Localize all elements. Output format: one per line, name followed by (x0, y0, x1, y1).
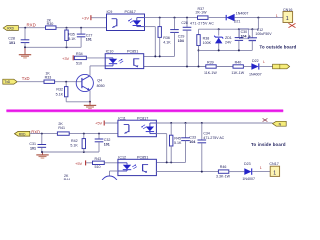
capacitor C27 (77, 28, 93, 48)
wire rail (IC10 emitter row) (144, 66, 206, 68)
power +5V (IC12) (75, 160, 93, 166)
ground (inside channel) (36, 151, 48, 158)
svg-text:104: 104 (189, 140, 195, 144)
svg-text:11K-1W: 11K-1W (231, 71, 244, 75)
svg-text:D21: D21 (234, 20, 241, 24)
wire ground rail (inside channel) (42, 151, 99, 153)
optocoupler IC11 (118, 117, 156, 137)
capacitor C28 X2 471/275VAC (181, 18, 214, 67)
resistor R39 (204, 61, 233, 75)
svg-text:5.1K: 5.1K (68, 37, 76, 41)
svg-text:8050: 8050 (97, 84, 105, 88)
separator line (board boundary) (6, 109, 283, 112)
svg-text:PC851: PC851 (127, 49, 138, 53)
wire IC11 cathode drop (156, 134, 166, 163)
svg-text:+5V: +5V (95, 120, 103, 125)
svg-text:IC10: IC10 (106, 49, 114, 53)
svg-text:R34: R34 (76, 52, 83, 56)
svg-text:1: 1 (273, 170, 276, 176)
power +3V (IC9) (82, 15, 107, 20)
svg-text:100K: 100K (203, 41, 212, 45)
resistor R34 (74, 52, 105, 65)
wire rail (IC12 emitter row) (156, 171, 218, 173)
svg-text:100uF50V: 100uF50V (255, 32, 272, 36)
optocoupler IC9 (107, 10, 145, 31)
capacitor C31 (29, 134, 46, 152)
zener ZD1 (214, 29, 232, 50)
svg-text:5.1K: 5.1K (70, 144, 78, 148)
svg-text:104: 104 (241, 35, 247, 39)
capacitor C32 (95, 134, 111, 152)
transistor Q5 (101, 176, 118, 193)
svg-text:1: 1 (260, 166, 262, 170)
svg-text:RXD: RXD (19, 132, 26, 136)
wire TxD row (17, 81, 81, 83)
wire rail (IC9 cathode / IC10 collector) (144, 27, 175, 57)
wire RXD row (18, 27, 106, 29)
svg-text:510: 510 (76, 61, 82, 65)
svg-text:C30: C30 (241, 30, 247, 34)
svg-text:C33: C33 (189, 135, 196, 139)
svg-text:4.1K: 4.1K (163, 41, 171, 45)
svg-text:R42: R42 (71, 139, 78, 143)
connector CN16 (283, 8, 296, 28)
svg-text:R41: R41 (58, 126, 65, 130)
svg-text:RXD: RXD (27, 22, 36, 27)
wire dropper top rail (199, 28, 259, 30)
svg-text:471-275V AC: 471-275V AC (203, 136, 224, 140)
svg-text:1: 1 (276, 14, 278, 18)
svg-text:CN17: CN17 (269, 162, 278, 166)
svg-text:To outside board: To outside board (260, 45, 297, 50)
resistor R37 (196, 7, 227, 20)
wire IC11 anode rail to port (156, 122, 272, 124)
svg-text:L: L (263, 60, 265, 64)
svg-text:R33: R33 (45, 75, 52, 79)
ground (RXD filter) (19, 46, 31, 58)
wire IC12 cathode to Q5 (110, 171, 118, 176)
wire riser to dropper rail (257, 18, 259, 30)
svg-text:PC817: PC817 (125, 10, 136, 14)
svg-text:2K-1W: 2K-1W (196, 10, 208, 14)
optocoupler IC10 (105, 49, 144, 68)
diode D23 (242, 162, 270, 181)
resistor R32 (56, 82, 68, 102)
svg-text:101: 101 (86, 38, 92, 42)
svg-text:R43: R43 (95, 157, 102, 161)
resistor R40 (231, 61, 251, 75)
svg-text:R36: R36 (163, 36, 170, 40)
svg-text:5.1K: 5.1K (56, 92, 64, 96)
svg-text:510: 510 (95, 165, 101, 169)
diode D21 (226, 11, 283, 23)
svg-text:C28: C28 (8, 37, 15, 41)
capacitor C28 (8, 28, 29, 48)
wire Q4 emitter (66, 90, 90, 101)
svg-text:IC9: IC9 (107, 10, 113, 14)
svg-text:R32: R32 (56, 88, 63, 92)
transistor Q4 (76, 74, 104, 91)
svg-text:Q4: Q4 (97, 78, 102, 82)
svg-text:R44: R44 (64, 178, 71, 180)
wire IC9 anode rail (145, 17, 198, 19)
svg-text:+3V: +3V (62, 56, 70, 61)
wire RXD2 row (30, 133, 118, 135)
resistor R30 (46, 18, 57, 29)
capacitor C34 X2 471/275VAC (198, 123, 225, 172)
svg-text:101: 101 (9, 41, 15, 45)
port L (outside line) (273, 64, 290, 69)
svg-text:R40: R40 (235, 61, 242, 65)
svg-text:24V: 24V (225, 40, 232, 44)
svg-text:RXD: RXD (7, 27, 14, 31)
power +3V (IC10) (62, 55, 74, 61)
svg-text:1: 1 (286, 16, 289, 22)
svg-text:1N4007: 1N4007 (249, 72, 262, 76)
svg-text:1N4007: 1N4007 (236, 11, 249, 15)
svg-text:C29: C29 (178, 34, 185, 38)
resistor R35 (65, 28, 76, 48)
svg-text:D22: D22 (252, 59, 259, 63)
port TxD (3, 79, 17, 84)
resistor R38 (197, 29, 212, 67)
port N (inside line) (273, 121, 287, 126)
resistor R42 (70, 134, 85, 152)
ground (Q4 emitter) (84, 102, 96, 109)
svg-text:11K-1W: 11K-1W (204, 71, 217, 75)
resistor R45 (170, 123, 182, 162)
capacitor C33 (181, 123, 196, 162)
svg-text:D23: D23 (244, 162, 251, 166)
svg-text:To inside board: To inside board (251, 142, 286, 147)
svg-text:104: 104 (178, 39, 184, 43)
wire rail (IC12 collector row) (157, 161, 186, 163)
svg-text:R46: R46 (220, 165, 227, 169)
optocoupler IC12 (118, 156, 156, 176)
svg-text:101: 101 (30, 147, 36, 151)
svg-text:C31: C31 (29, 142, 36, 146)
svg-text:R39: R39 (207, 61, 214, 65)
port RXD (inside channel) (15, 131, 30, 136)
wire rail under C28/R35/C27 (25, 46, 81, 48)
resistor R41 (57, 122, 69, 135)
svg-text:TxD: TxD (4, 80, 11, 84)
resistor R44 (61, 174, 73, 185)
power +5V (IC11) (95, 120, 118, 125)
junction dots RXD row (24, 27, 82, 29)
diode D22 (249, 59, 273, 76)
svg-text:C32: C32 (104, 138, 111, 142)
svg-text:+5V: +5V (75, 161, 83, 166)
connector CN17 (269, 162, 279, 176)
svg-text:R45: R45 (174, 136, 181, 140)
svg-text:ZD1: ZD1 (225, 36, 232, 40)
wire Q4 collector to IC10 (90, 66, 105, 76)
port RXD (3, 26, 18, 31)
capacitor C29 (170, 18, 184, 57)
svg-text:R38: R38 (203, 36, 210, 40)
capacitor E12 electrolytic (248, 28, 273, 50)
svg-text:5.1K: 5.1K (174, 141, 182, 145)
X mark (263, 118, 268, 121)
svg-text:TxD: TxD (22, 76, 30, 81)
svg-text:1N4007: 1N4007 (242, 177, 255, 180)
svg-text:R30: R30 (47, 22, 54, 26)
resistor R46 (216, 165, 244, 179)
capacitor C30 (235, 29, 249, 51)
svg-text:3.3K-1W: 3.3K-1W (216, 175, 231, 179)
resistor R43 (93, 157, 118, 169)
resistor R36 (158, 18, 171, 57)
svg-text:C34: C34 (203, 132, 209, 136)
svg-text:+3V: +3V (82, 15, 90, 20)
svg-text:C28: C28 (181, 21, 187, 25)
resistor R33 (44, 71, 55, 83)
svg-text:101: 101 (104, 143, 110, 147)
svg-text:471-275V AC: 471-275V AC (190, 21, 214, 25)
wire dropper bottom rail (199, 49, 253, 51)
